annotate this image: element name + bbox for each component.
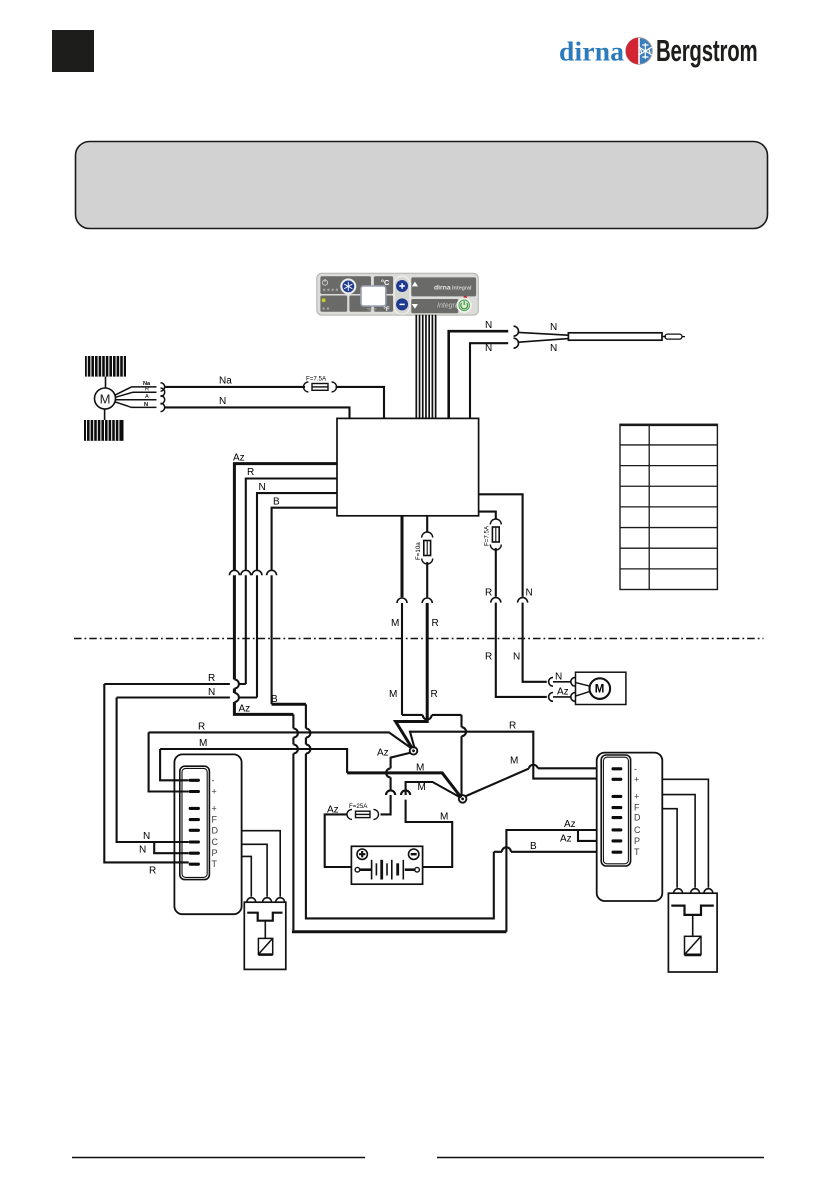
- svg-text:N: N: [485, 343, 492, 354]
- wire N upper left: [117, 698, 257, 854]
- svg-text:R: R: [509, 721, 516, 732]
- svg-text:N: N: [219, 396, 226, 407]
- svg-text:dirna: dirna: [559, 36, 624, 67]
- svg-text:D: D: [212, 825, 219, 835]
- svg-text:F=10a: F=10a: [415, 542, 422, 560]
- hops of vertical wires Az and B over R and M horizontals: [293, 714, 298, 930]
- motor M1 leads Na R A N: [115, 387, 157, 408]
- right connector block J2: [597, 753, 663, 901]
- svg-text:D: D: [634, 813, 641, 823]
- wire R with fuse F=7.5A (unit right): [479, 512, 496, 519]
- svg-text:R: R: [208, 673, 215, 684]
- wire N to probe (lower): [470, 343, 508, 418]
- wire R lower: [245, 575, 247, 684]
- svg-text:F=7.5A: F=7.5A: [306, 376, 327, 383]
- temperature probe TH1: [568, 333, 685, 340]
- footer line left: [72, 1157, 365, 1159]
- svg-text:+: +: [212, 787, 217, 797]
- wire N to probe (upper): [449, 331, 509, 418]
- motor M1: [95, 377, 116, 420]
- wire Az node 1 to battery + (via fuse F=25A): [325, 753, 411, 867]
- wire R below connector (thick) to node 1: [396, 603, 428, 748]
- svg-text:M: M: [510, 756, 518, 767]
- wire R continues to cab motor (as Az): [496, 603, 547, 697]
- svg-text:P: P: [634, 836, 640, 846]
- svg-text:B: B: [530, 841, 537, 852]
- connector pin table (empty): [620, 424, 717, 589]
- wire B lower: [271, 575, 273, 704]
- svg-text:N: N: [555, 672, 562, 683]
- wire B (unit left): [272, 508, 337, 570]
- svg-text:Az: Az: [560, 833, 572, 844]
- fan blade hatch bottom: [84, 420, 124, 441]
- svg-text:Az: Az: [377, 747, 389, 758]
- wire N (motor to unit): [165, 407, 350, 418]
- svg-text:N: N: [550, 322, 557, 333]
- svg-text:R: R: [431, 689, 438, 700]
- svg-text:°C: °C: [381, 278, 390, 287]
- connectors on Az R N B: [229, 570, 276, 575]
- dash-dot separation line: [74, 638, 764, 640]
- svg-text:A: A: [145, 394, 149, 400]
- svg-text:M: M: [595, 683, 605, 695]
- wire Na (motor to unit, with fuse): [165, 387, 384, 419]
- svg-text:Az: Az: [233, 452, 245, 463]
- node 2 junction: [459, 795, 467, 803]
- wire R from left connector to node 1: [149, 732, 412, 748]
- cab blower motor M2: [576, 672, 626, 704]
- wire M to left pin -: [160, 749, 189, 780]
- svg-text:T: T: [212, 859, 218, 869]
- svg-text:Az: Az: [557, 686, 569, 697]
- wire Az lower: [234, 575, 293, 714]
- svg-text:+: +: [634, 774, 639, 784]
- svg-text:F: F: [634, 803, 640, 813]
- probe connectors: [514, 326, 569, 348]
- svg-text:dirna: dirna: [434, 285, 451, 292]
- svg-text:M: M: [418, 782, 426, 793]
- fan blade hatch top: [85, 356, 126, 377]
- svg-text:N: N: [144, 402, 148, 408]
- wire R long to left pin T: [104, 684, 188, 862]
- svg-text:N: N: [485, 320, 492, 331]
- fuse F=10A: [422, 532, 433, 564]
- svg-text:-: -: [212, 775, 215, 785]
- left connector pins: [189, 779, 200, 866]
- svg-text:F: F: [212, 815, 218, 825]
- svg-text:Az: Az: [327, 804, 339, 815]
- svg-text:N: N: [259, 482, 266, 493]
- wire R (unit bottom): [426, 516, 428, 532]
- svg-text:Integral: Integral: [452, 286, 472, 292]
- wire R to left pin +: [149, 732, 189, 791]
- wire M below connector: [402, 603, 466, 795]
- right connector pins: [612, 767, 623, 854]
- wire R from node 1 to right connector pin +: [410, 732, 612, 779]
- left connector block J1: [174, 754, 241, 914]
- svg-text:F=7.5A: F=7.5A: [484, 525, 491, 546]
- wire N (unit right): [479, 494, 523, 597]
- svg-text:R: R: [432, 618, 439, 629]
- svg-text:N: N: [550, 343, 557, 354]
- wire N continues to cab motor: [523, 603, 547, 682]
- wire N lower: [256, 575, 258, 697]
- svg-text:Az: Az: [564, 819, 576, 830]
- svg-text:R: R: [485, 587, 492, 598]
- wire B lower: [272, 704, 612, 918]
- control panel U1: [317, 273, 479, 315]
- svg-text:C: C: [212, 837, 219, 847]
- wire N (unit left): [257, 493, 337, 570]
- svg-text:B: B: [273, 496, 280, 507]
- svg-text:Bergstrom: Bergstrom: [656, 35, 757, 68]
- svg-text:C: C: [634, 825, 641, 835]
- svg-text:+: +: [212, 803, 217, 813]
- svg-text:M: M: [100, 391, 111, 406]
- svg-text:Na: Na: [219, 375, 232, 386]
- connectors at cab motor: [549, 677, 576, 701]
- left pressure switch relay K1: [244, 902, 285, 969]
- dirna Bergstrom logo: [559, 35, 757, 68]
- svg-text:F=25A: F=25A: [349, 803, 368, 810]
- right connector pin labels: [634, 764, 641, 857]
- ribbon cable from panel to control unit: [416, 315, 435, 419]
- wire Az (unit left, thick): [234, 464, 337, 570]
- wire M node 2 to right connector pin -: [465, 765, 612, 797]
- fuse F=25A: [347, 809, 379, 819]
- svg-text:M: M: [199, 738, 207, 749]
- svg-text:N: N: [513, 651, 520, 662]
- svg-text:°F: °F: [384, 307, 390, 313]
- svg-text:T: T: [634, 847, 640, 857]
- svg-text:M: M: [416, 762, 424, 773]
- fuse F=7.5A (Na): [304, 382, 337, 392]
- motor M1 connectors: [161, 383, 165, 412]
- svg-text:R: R: [145, 387, 149, 393]
- svg-text:N: N: [526, 587, 533, 598]
- left connector pin labels: [212, 775, 219, 869]
- wire R horizontal upper left: [104, 683, 246, 685]
- left connector to relay wires: [242, 831, 285, 903]
- node 1 junction: [410, 747, 418, 755]
- connectors on R N right: [491, 598, 528, 603]
- svg-text:-: -: [634, 764, 637, 774]
- grey note box: [76, 142, 768, 229]
- svg-text:R: R: [485, 651, 492, 662]
- svg-text:P: P: [212, 848, 218, 858]
- wire M thick from left connector path to node 2: [160, 749, 461, 798]
- svg-text:R: R: [247, 467, 254, 478]
- svg-text:N: N: [143, 831, 150, 842]
- svg-text:R: R: [149, 865, 156, 876]
- node 2 junction wires: battery M side: [401, 782, 460, 867]
- svg-text:N: N: [139, 845, 146, 856]
- svg-text:TEMP: TEMP: [367, 307, 377, 311]
- footer line right: [437, 1157, 764, 1159]
- battery B1: [351, 846, 422, 884]
- svg-text:+: +: [634, 791, 639, 801]
- right pressure switch relay K2: [668, 893, 717, 972]
- wire Az lower horizontal to right connector C and P: [292, 830, 612, 932]
- svg-text:N: N: [208, 687, 215, 698]
- svg-text:R: R: [198, 722, 205, 733]
- svg-text:M: M: [391, 618, 399, 629]
- wire R (unit left): [246, 479, 337, 570]
- right connector to relay wires: [662, 779, 713, 893]
- wire M (unit bottom, thick): [401, 516, 404, 598]
- black corner square: [52, 30, 94, 72]
- svg-text:M: M: [440, 811, 448, 822]
- svg-text:Az: Az: [239, 704, 251, 715]
- control unit box: [337, 418, 479, 515]
- svg-text:M: M: [389, 689, 397, 700]
- connectors on M R: [397, 598, 432, 603]
